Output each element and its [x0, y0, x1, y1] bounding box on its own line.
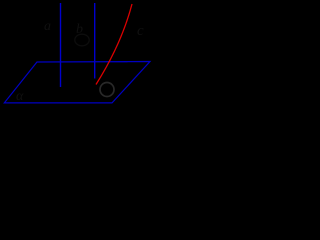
plane alpha (parallelogram)	[4, 62, 150, 103]
line b (right vertical)	[94, 3, 96, 79]
svg-text:c: c	[137, 23, 144, 39]
line a (left vertical)	[60, 3, 62, 87]
svg-text:a: a	[44, 19, 51, 34]
line c (red oblique, slightly curved)	[96, 4, 132, 85]
faint ellipse between lines a and b	[75, 34, 89, 46]
svg-text:α: α	[16, 89, 24, 104]
circle at foot of red line	[100, 83, 114, 97]
svg-text:b: b	[76, 22, 83, 37]
